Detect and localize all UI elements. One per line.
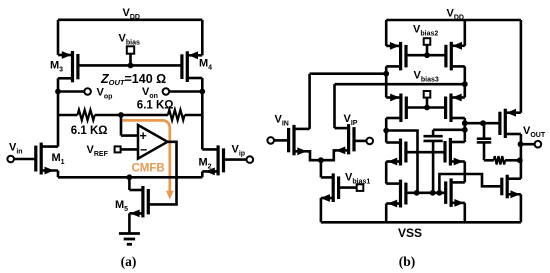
svg-text:+: +: [140, 129, 147, 143]
svg-text:6.1 KΩ: 6.1 KΩ: [71, 125, 108, 137]
svg-text:CMFB: CMFB: [132, 163, 165, 175]
svg-text:(a): (a): [121, 254, 137, 269]
svg-text:6.1 KΩ: 6.1 KΩ: [137, 100, 174, 112]
svg-text:−: −: [140, 143, 147, 157]
svg-text:VSS: VSS: [398, 226, 422, 240]
svg-text:(b): (b): [399, 254, 416, 269]
